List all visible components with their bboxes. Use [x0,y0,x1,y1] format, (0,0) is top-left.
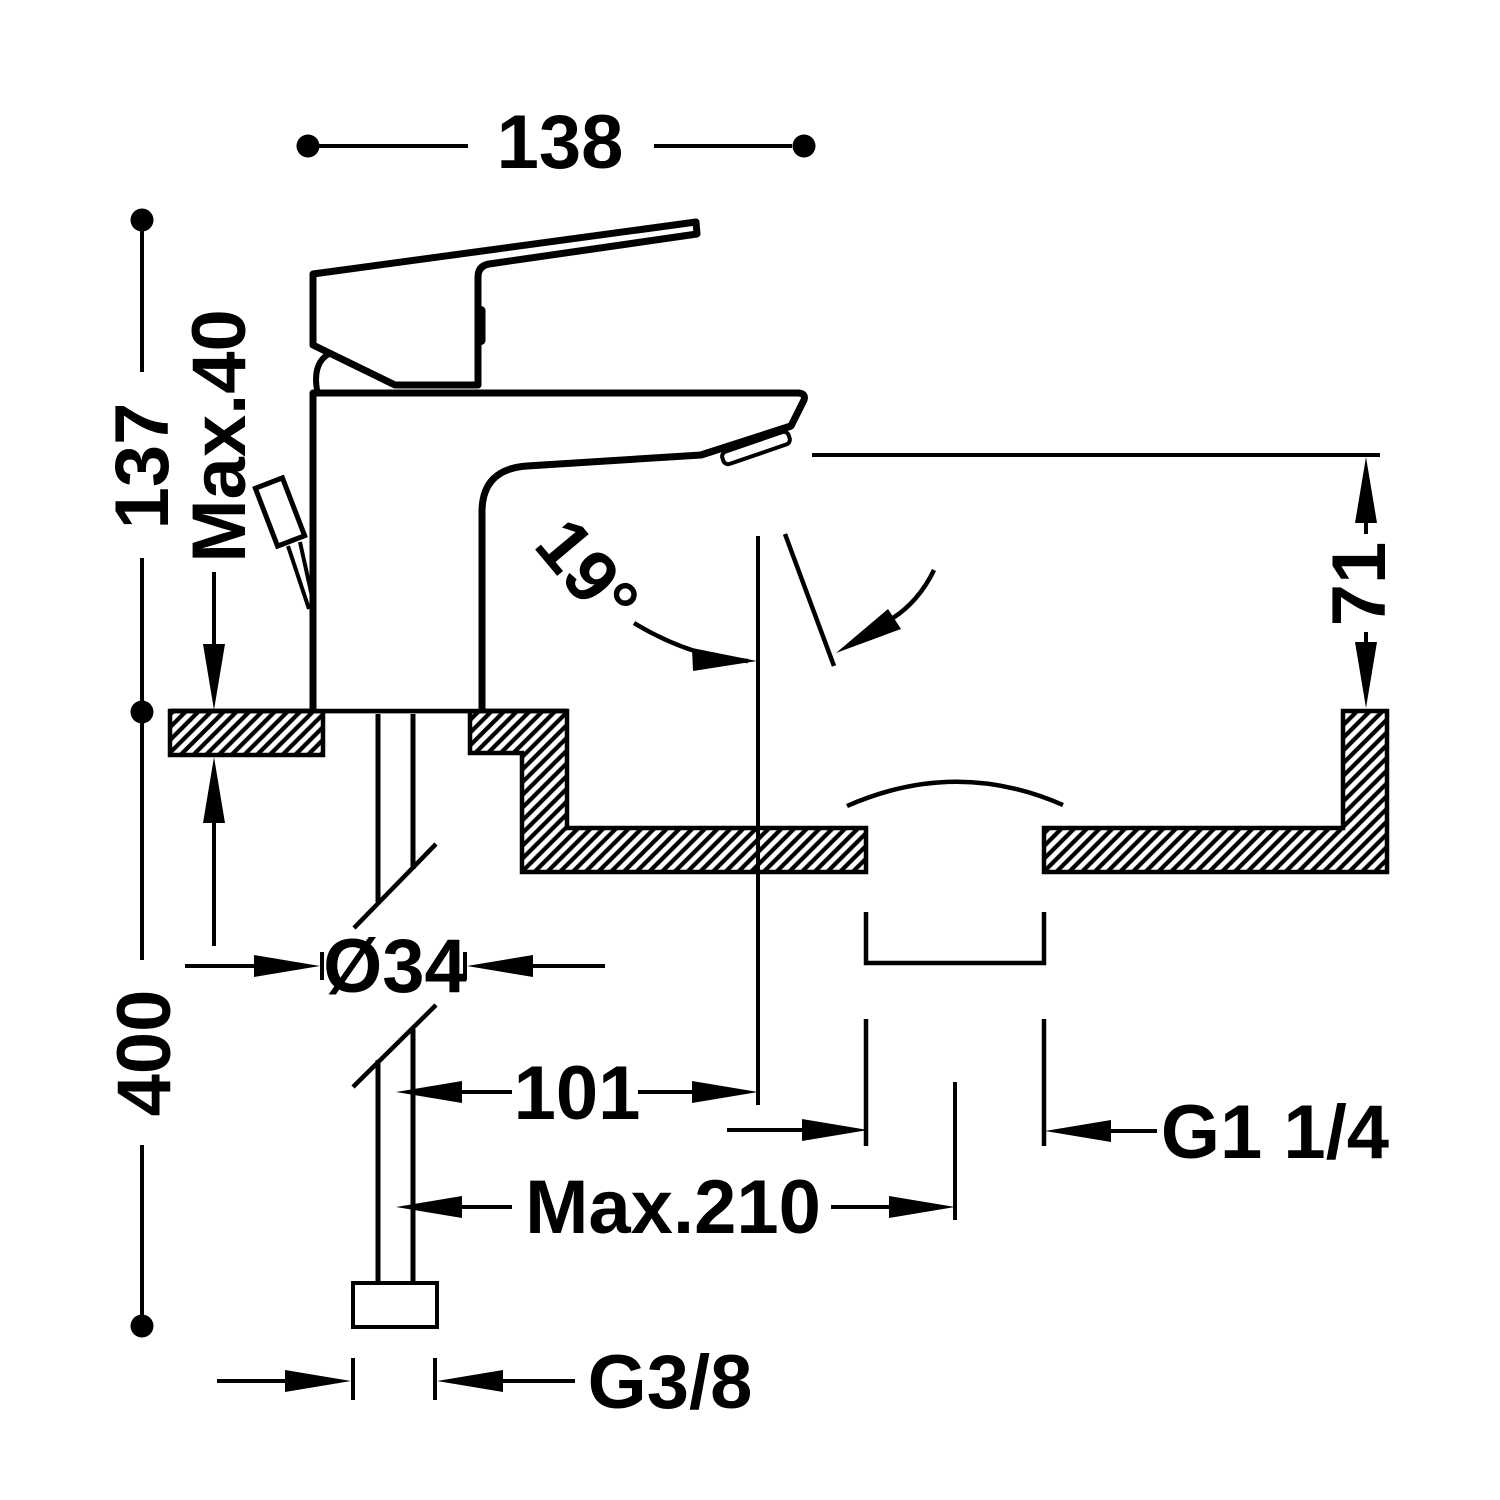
svg-text:400: 400 [102,990,187,1117]
svg-text:101: 101 [514,1051,641,1136]
svg-text:137: 137 [100,403,185,530]
svg-text:71: 71 [1317,542,1402,627]
svg-text:138: 138 [497,100,624,185]
svg-text:Max.40: Max.40 [177,309,262,563]
svg-text:G3/8: G3/8 [588,1340,753,1425]
svg-text:Ø34: Ø34 [323,924,467,1009]
svg-text:G1 1/4: G1 1/4 [1161,1090,1389,1175]
svg-text:Max.210: Max.210 [525,1165,821,1250]
